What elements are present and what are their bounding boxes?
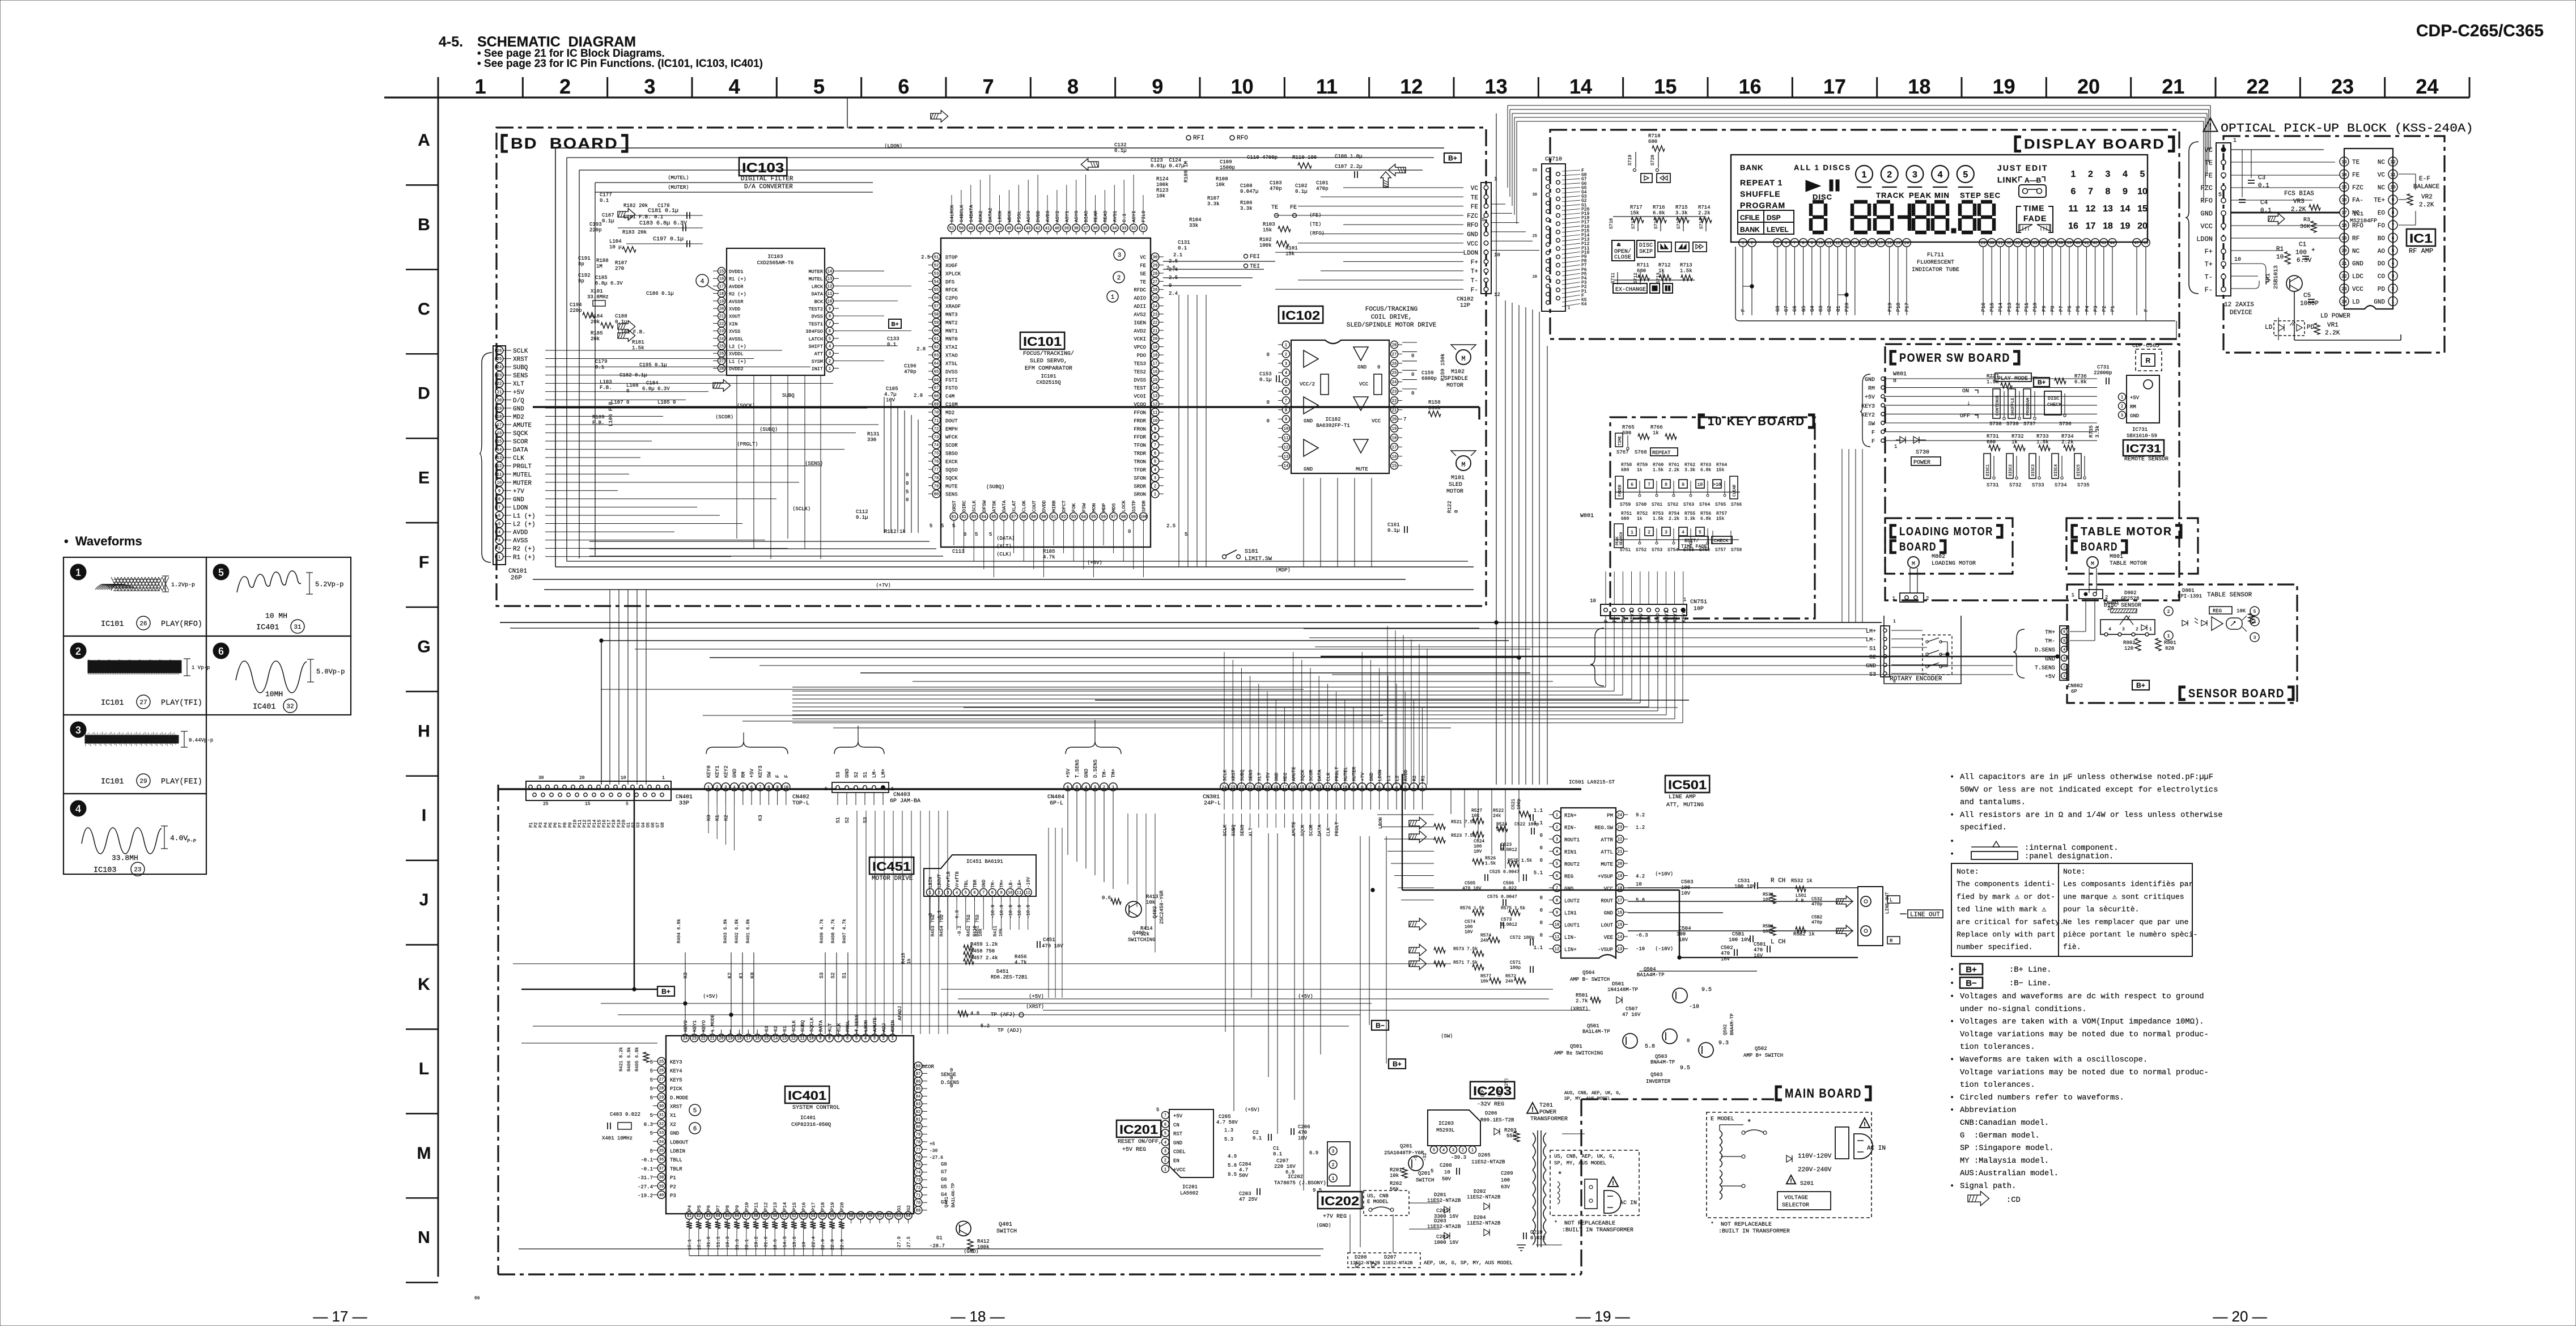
svg-text:4: 4 [2123, 170, 2128, 179]
svg-text:XOUT: XOUT [729, 314, 740, 320]
svg-text:R711: R711 [1637, 262, 1649, 268]
svg-text:20: 20 [2137, 222, 2148, 231]
svg-text:5: 5 [906, 489, 909, 495]
svg-text:10: 10 [1343, 786, 1347, 790]
svg-text:17: 17 [1878, 242, 1883, 246]
MAIN BOARD label [1776, 1087, 1782, 1100]
svg-text:14: 14 [1308, 786, 1313, 790]
svg-text:69: 69 [916, 1209, 920, 1213]
svg-text:AC IN: AC IN [1620, 1200, 1637, 1206]
svg-text:IC103: IC103 [767, 254, 783, 260]
svg-text:RIN+: RIN+ [1564, 813, 1577, 819]
svg-text:The components identi-: The components identi- [1957, 880, 2055, 888]
svg-text:⟨GND⟩: ⟨GND⟩ [964, 1249, 979, 1255]
svg-text:•: • [1950, 966, 1954, 975]
svg-text:R571 7.5k: R571 7.5k [1453, 960, 1478, 965]
svg-text:XLT: XLT [1248, 828, 1254, 836]
svg-text:1.3: 1.3 [1224, 1128, 1233, 1133]
svg-text:G3: G3 [1818, 306, 1824, 312]
svg-text:6: 6 [2063, 630, 2065, 634]
svg-text:0: 0 [1377, 365, 1380, 370]
svg-text:S766: S766 [1731, 502, 1742, 507]
svg-text:F.B.: F.B. [600, 385, 612, 391]
svg-text:R757: R757 [1716, 511, 1727, 516]
svg-text:•: • [1950, 1183, 1954, 1191]
long bus wire below BD [500, 622, 1882, 623]
svg-text:R802: R802 [2123, 640, 2136, 646]
svg-text:SP, MY, AUS MODEL: SP, MY, AUS MODEL [1554, 1160, 1606, 1166]
svg-text:VCKI: VCKI [1134, 337, 1146, 342]
svg-text:GND: GND [1467, 232, 1478, 239]
svg-text:number specified.: number specified. [1957, 943, 2033, 951]
svg-text:ADIO: ADIO [1134, 296, 1146, 302]
svg-text:9: 9 [1352, 786, 1355, 790]
svg-text:9: 9 [1152, 75, 1163, 98]
svg-text:C105: C105 [886, 386, 898, 392]
svg-text::internal component.: :internal component. [2025, 844, 2119, 853]
svg-text:3: 3 [2392, 274, 2395, 279]
svg-text:G2: G2 [906, 1205, 911, 1211]
svg-text:MD2: MD2 [1283, 773, 1288, 781]
svg-text:0: 0 [1540, 933, 1543, 938]
svg-text:17: 17 [1282, 786, 1287, 790]
svg-text:AMP B+ SWITCH: AMP B+ SWITCH [1743, 1053, 1783, 1058]
svg-text:TM+: TM+ [1111, 769, 1117, 778]
svg-text:R401 6.8k: R401 6.8k [746, 919, 751, 943]
svg-text:EX-CHANGE: EX-CHANGE [1615, 287, 1646, 293]
svg-text:8: 8 [1556, 899, 1558, 903]
svg-text:TEST: TEST [1134, 385, 1146, 391]
svg-text:10k: 10k [1146, 900, 1155, 905]
seven segment -1 88.88 [1898, 215, 1908, 219]
svg-text:C206: C206 [1298, 1124, 1310, 1130]
svg-text:330: 330 [867, 437, 876, 443]
FL711 pins row [1739, 239, 1747, 247]
svg-text:R572: R572 [1505, 974, 1516, 979]
svg-text:P8: P8 [725, 1205, 731, 1211]
svg-text:P6: P6 [2067, 306, 2073, 312]
svg-text:IC1: IC1 [2409, 231, 2433, 245]
svg-text:P11: P11 [754, 1202, 759, 1211]
svg-text:PEAK: PEAK [1909, 191, 1932, 200]
svg-text:0: 0 [906, 481, 909, 486]
open close disc skip buttons [1612, 240, 1635, 261]
svg-text:14: 14 [773, 1037, 778, 1041]
svg-text:15: 15 [2137, 204, 2148, 214]
svg-text:9: 9 [2392, 198, 2395, 203]
svg-text:10V: 10V [886, 397, 896, 403]
svg-text:100 10V: 100 10V [1729, 937, 1750, 943]
svg-text:5W: 5W [1621, 616, 1627, 622]
svg-text:!: ! [1531, 1105, 1534, 1113]
svg-text:G1: G1 [936, 1235, 943, 1241]
svg-text:RIN1: RIN1 [1564, 850, 1577, 855]
svg-text:G6: G6 [1792, 306, 1798, 312]
svg-text:5: 5 [941, 523, 944, 529]
svg-text:6: 6 [2392, 236, 2395, 241]
svg-text:XLT: XLT [827, 1023, 833, 1032]
svg-text:12: 12 [1284, 446, 1288, 450]
svg-text:26: 26 [659, 1069, 664, 1073]
svg-text::CD: :CD [2006, 1196, 2021, 1205]
svg-text:LM+: LM+ [881, 769, 886, 778]
svg-text:4: 4 [1442, 1149, 1445, 1153]
svg-text:Q502: Q502 [1723, 1024, 1728, 1035]
svg-text:GND: GND [670, 1131, 679, 1137]
svg-text:56: 56 [830, 1214, 834, 1219]
svg-text:-19.2: -19.2 [638, 1193, 653, 1199]
svg-text:54: 54 [810, 1214, 815, 1219]
svg-text:10: 10 [784, 786, 788, 790]
svg-text:85: 85 [991, 515, 996, 520]
svg-text:4: 4 [1395, 786, 1398, 790]
svg-text:R759: R759 [1637, 463, 1648, 468]
svg-text:AVS1: AVS1 [1112, 211, 1118, 222]
svg-text:FCS BIAS: FCS BIAS [2284, 190, 2314, 197]
svg-text:0: 0 [950, 1067, 953, 1073]
svg-text:2.5: 2.5 [1169, 275, 1178, 281]
svg-text:8: 8 [991, 891, 994, 896]
svg-text:22: 22 [1239, 786, 1244, 790]
svg-text:XLT: XLT [513, 381, 524, 388]
svg-text:50V: 50V [1442, 1176, 1452, 1182]
svg-text:D: D [418, 384, 430, 403]
svg-text:1.2Vp-p: 1.2Vp-p [171, 582, 195, 588]
svg-text:15: 15 [1392, 464, 1397, 469]
svg-text:•: • [1950, 811, 1954, 820]
svg-text:— 20 —: — 20 — [2213, 1308, 2267, 1325]
svg-text:T201: T201 [1539, 1103, 1553, 1109]
svg-text:REG: REG [1564, 874, 1573, 880]
power diodes [1900, 437, 1906, 443]
svg-text:•: • [1950, 1018, 1954, 1027]
svg-text:VCC: VCC [1467, 241, 1478, 248]
svg-text:3: 3 [1154, 476, 1156, 481]
svg-text:14: 14 [827, 270, 832, 274]
svg-text:10V: 10V [1474, 849, 1482, 854]
svg-text:F-: F- [1471, 287, 1478, 294]
svg-text:P2: P2 [670, 1184, 676, 1190]
svg-text:51: 51 [934, 256, 939, 260]
svg-text:10: 10 [1590, 598, 1596, 604]
svg-text:NC: NC [2352, 248, 2360, 255]
svg-text:15: 15 [1300, 786, 1304, 790]
svg-text:11: 11 [1316, 75, 1338, 98]
svg-text:33: 33 [2015, 242, 2020, 246]
svg-text:-8: -8 [928, 913, 933, 918]
svg-text:1000 16V: 1000 16V [1434, 1240, 1459, 1245]
svg-text:L2 (+): L2 (+) [729, 344, 746, 350]
svg-text:81: 81 [916, 1117, 920, 1122]
svg-text:R801: R801 [2164, 640, 2176, 646]
svg-text:3.3k: 3.3k [2095, 425, 2100, 438]
svg-text::BUILT IN TRANSFORMER: :BUILT IN TRANSFORMER [1718, 1228, 1790, 1235]
svg-text:KEY3: KEY3 [1861, 404, 1875, 410]
svg-text:23.3: 23.3 [735, 1239, 740, 1250]
svg-text:LIN+: LIN+ [1564, 947, 1577, 953]
svg-text:4.7k: 4.7k [1015, 960, 1027, 965]
svg-text:11: 11 [2390, 172, 2396, 177]
BD bottom bus wires [555, 566, 1474, 567]
svg-text:S715: S715 [1677, 218, 1682, 229]
svg-text:R525 1.5k: R525 1.5k [1508, 858, 1532, 863]
svg-text:SHUFFLE: SHUFFLE [1740, 189, 1781, 198]
svg-text:21: 21 [710, 1037, 714, 1041]
svg-text:F: F [1871, 430, 1875, 437]
svg-text:•: • [1950, 993, 1954, 1001]
svg-text:DIRC: DIRC [962, 501, 967, 512]
svg-text:TFDR: TFDR [1134, 467, 1146, 473]
svg-text:SCLK: SCLK [791, 1020, 797, 1032]
mode switches continue shuffle program disc check [1993, 389, 2000, 418]
svg-text:4: 4 [829, 345, 831, 349]
svg-text:820: 820 [2165, 646, 2174, 651]
verticals CN404 to IC451/IC501 [1067, 800, 1068, 855]
svg-text:67: 67 [934, 386, 939, 391]
svg-text:AVDDR: AVDDR [729, 284, 744, 290]
svg-text:SYSM: SYSM [812, 359, 823, 365]
svg-text:Q401: Q401 [999, 1222, 1012, 1228]
svg-text:KEY2: KEY2 [1664, 610, 1670, 622]
svg-text:10: 10 [2234, 257, 2241, 263]
svg-text:G1: G1 [1836, 306, 1841, 312]
svg-text:L106 F.B.: L106 F.B. [608, 399, 614, 426]
svg-text:D451: D451 [996, 969, 1009, 975]
svg-text:BA1L4M-TP: BA1L4M-TP [1582, 1029, 1610, 1035]
svg-text:79: 79 [934, 484, 939, 489]
svg-text:17: 17 [2086, 222, 2096, 231]
svg-text:REG.SW: REG.SW [1595, 825, 1614, 831]
svg-text:FLUORESCENT: FLUORESCENT [1917, 260, 1954, 266]
svg-text:5: 5 [650, 1095, 653, 1101]
svg-text:3.3k: 3.3k [1684, 516, 1695, 522]
svg-text:100: 100 [1474, 844, 1482, 849]
svg-text:R2 (+): R2 (+) [513, 546, 536, 553]
svg-text:-10V: -10V [1026, 877, 1032, 888]
svg-text:40: 40 [1055, 227, 1059, 231]
svg-text:IC201: IC201 [1182, 1184, 1198, 1190]
svg-text:MIRR: MIRR [1051, 501, 1057, 512]
svg-text:33P: 33P [679, 800, 689, 807]
svg-text:31: 31 [294, 624, 302, 631]
svg-text:CLK: CLK [836, 1023, 842, 1032]
svg-text:63: 63 [934, 354, 939, 358]
svg-text:*: * [1747, 1119, 1751, 1128]
svg-text:384FSO: 384FSO [805, 329, 823, 334]
svg-text:AFADJ: AFADJ [897, 1006, 903, 1020]
svg-text:*: * [1558, 1171, 1562, 1180]
svg-text:KEY3: KEY3 [670, 1060, 682, 1065]
svg-text:VCC: VCC [1372, 418, 1381, 424]
svg-text:+7V: +7V [513, 488, 524, 495]
svg-text:4: 4 [700, 277, 704, 285]
svg-text:AVS2: AVS2 [1134, 312, 1146, 317]
svg-text:DSP: DSP [1767, 214, 1781, 222]
IC201 label [1117, 1120, 1161, 1137]
svg-text:BD BOARD: BD BOARD [511, 135, 618, 152]
svg-text:R183 20k: R183 20k [622, 230, 647, 235]
svg-text:R112 1k: R112 1k [884, 529, 906, 535]
svg-text:XRST: XRST [1231, 770, 1237, 781]
svg-text:SEARCH: SEARCH [1619, 532, 1623, 545]
svg-text:45: 45 [1007, 227, 1011, 231]
svg-text:R202: R202 [1390, 1181, 1402, 1187]
svg-text:43: 43 [2102, 242, 2106, 246]
svg-text:25: 25 [1392, 371, 1397, 376]
svg-text:26: 26 [497, 349, 502, 354]
svg-text:KEY5: KEY5 [670, 1077, 682, 1083]
svg-text:S735: S735 [2077, 482, 2090, 488]
svg-text:TR1: TR1 [2265, 273, 2272, 283]
svg-text:3: 3 [1094, 786, 1096, 790]
svg-text:R107: R107 [1207, 196, 1220, 201]
svg-text:DISC1: DISC1 [1986, 464, 1991, 476]
svg-text:BNA4M-TP: BNA4M-TP [1650, 1060, 1675, 1065]
svg-text:ASYI: ASYI [1131, 211, 1137, 222]
svg-text:A: A [418, 131, 430, 150]
svg-text:MUTE: MUTE [1356, 467, 1368, 472]
waveform box 1 IC101 pin26 PLAY(RFO) [63, 557, 206, 636]
svg-text:C204: C204 [1239, 1162, 1251, 1167]
svg-text:AVDD: AVDD [513, 529, 528, 536]
svg-text:36: 36 [1093, 227, 1097, 231]
svg-text:19: 19 [1896, 242, 1900, 246]
svg-text:SWITCH: SWITCH [1416, 1177, 1434, 1183]
svg-text:MS2104FP: MS2104FP [2350, 218, 2377, 224]
svg-text:R577: R577 [1480, 974, 1491, 979]
svg-text:1N4148M-TP: 1N4148M-TP [1607, 987, 1638, 993]
svg-text:⟨+10V⟩: ⟨+10V⟩ [1655, 871, 1673, 877]
svg-text:4: 4 [729, 75, 740, 98]
svg-text:0.1µ: 0.1µ [1259, 377, 1272, 383]
svg-text:C109: C109 [1220, 159, 1232, 165]
svg-text:KEY0: KEY0 [706, 765, 712, 778]
svg-text:15k: 15k [1285, 251, 1295, 257]
svg-text:LB-: LB- [1008, 880, 1013, 888]
svg-text:18: 18 [2341, 223, 2347, 228]
svg-text:1: 1 [1892, 596, 1895, 601]
svg-text:R182 20k: R182 20k [623, 203, 648, 209]
svg-text:51: 51 [949, 227, 954, 231]
svg-text:37: 37 [1083, 227, 1088, 231]
svg-text:FO: FO [2378, 223, 2386, 230]
svg-text:R415: R415 [901, 953, 906, 964]
svg-text:17: 17 [746, 1037, 750, 1041]
svg-text:S2: S2 [854, 772, 859, 778]
svg-text:TES3: TES3 [1134, 361, 1146, 367]
svg-text:C731: C731 [2097, 365, 2110, 370]
svg-text:KEY3: KEY3 [1629, 610, 1635, 622]
IC203 chip [1428, 1110, 1480, 1146]
svg-text:C573: C573 [1501, 917, 1512, 922]
svg-text:LDC: LDC [2352, 274, 2363, 281]
svg-text:1 Vp-p: 1 Vp-p [192, 665, 210, 671]
svg-text:+5V: +5V [1638, 613, 1644, 622]
svg-text:8: 8 [1893, 378, 1896, 384]
svg-text:R458 750: R458 750 [970, 948, 995, 954]
svg-text:+5V: +5V [1066, 768, 1071, 778]
wires BD right side down [1496, 113, 1497, 785]
svg-text:REG: REG [2213, 608, 2222, 614]
svg-text:SCOR: SCOR [1309, 770, 1314, 781]
svg-text:9: 9 [2123, 187, 2128, 197]
svg-text:— 17 —: — 17 — [313, 1308, 367, 1325]
svg-text:75: 75 [934, 452, 939, 456]
svg-text:R408 4.7k: R408 4.7k [831, 919, 836, 943]
svg-text:9.5: 9.5 [1680, 1065, 1690, 1071]
svg-text:IC451 BA6191: IC451 BA6191 [966, 859, 1003, 865]
svg-text:TEST1: TEST1 [808, 321, 823, 327]
svg-text:22: 22 [701, 1037, 706, 1041]
svg-text:44: 44 [2110, 242, 2115, 246]
svg-text:•: • [1950, 1094, 1954, 1102]
svg-text:2: 2 [716, 786, 718, 790]
svg-text:30: 30 [1153, 256, 1157, 260]
svg-text:S1: S1 [863, 772, 868, 778]
svg-text:50WV or less are not indicated: 50WV or less are not indicated except fo… [1960, 785, 2218, 794]
svg-text:S2: S2 [773, 1026, 779, 1032]
svg-text:96: 96 [1101, 515, 1106, 520]
svg-text:0: 0 [1687, 1038, 1690, 1044]
svg-text:R754: R754 [1669, 511, 1679, 516]
svg-text:57: 57 [934, 304, 939, 309]
CN751 verticals into keyboard [1605, 571, 1606, 604]
svg-text:10V: 10V [1298, 1136, 1308, 1141]
svg-text:D208: D208 [1355, 1255, 1367, 1260]
svg-text:CLK: CLK [1326, 827, 1331, 836]
svg-text:59: 59 [858, 1214, 863, 1219]
svg-text:TE: TE [1140, 279, 1146, 285]
svg-text:SCOR: SCOR [513, 439, 528, 446]
svg-text::panel designation.: :panel designation. [2025, 852, 2114, 861]
svg-text:12: 12 [2390, 160, 2396, 165]
svg-text:70: 70 [934, 411, 939, 416]
CN101 brace [479, 353, 492, 562]
svg-text:15: 15 [1654, 75, 1677, 98]
svg-text:3: 3 [1118, 252, 1122, 259]
svg-text:5: 5 [693, 1108, 697, 1115]
svg-text:49: 49 [969, 227, 973, 231]
svg-text:9: 9 [1285, 418, 1287, 422]
svg-text:9: 9 [819, 1037, 821, 1041]
svg-text:59: 59 [934, 321, 939, 325]
svg-text:12: 12 [1400, 75, 1423, 98]
OPTICAL PICK-UP BLOCK title [2203, 118, 2217, 132]
svg-text:C133: C133 [887, 336, 899, 342]
IC401 top pins [681, 1034, 689, 1042]
svg-text:M101: M101 [1451, 475, 1465, 481]
svg-text:1.5k: 1.5k [1485, 861, 1496, 866]
svg-text:0.047µ: 0.047µ [1240, 189, 1258, 194]
svg-text:R714: R714 [1698, 205, 1711, 210]
main area long horizontals [601, 1003, 1372, 1004]
svg-text:TEI: TEI [1250, 264, 1260, 270]
svg-text:LM-: LM- [1866, 637, 1876, 643]
svg-text:INIT: INIT [812, 366, 823, 372]
svg-text:8: 8 [1361, 786, 1363, 790]
svg-text:57: 57 [839, 1214, 844, 1219]
svg-text:R459 1.2k: R459 1.2k [970, 942, 998, 947]
svg-text:46: 46 [997, 227, 1001, 231]
svg-text:RFO: RFO [2200, 197, 2213, 205]
svg-text:5: 5 [1185, 532, 1187, 537]
svg-text:C186 0.1µ: C186 0.1µ [646, 291, 674, 296]
S101 limit switch [1223, 555, 1227, 559]
sensor brace [2013, 629, 2025, 678]
svg-text:6: 6 [693, 1126, 697, 1133]
svg-text:16: 16 [719, 277, 724, 282]
svg-text:R764: R764 [1716, 463, 1727, 468]
